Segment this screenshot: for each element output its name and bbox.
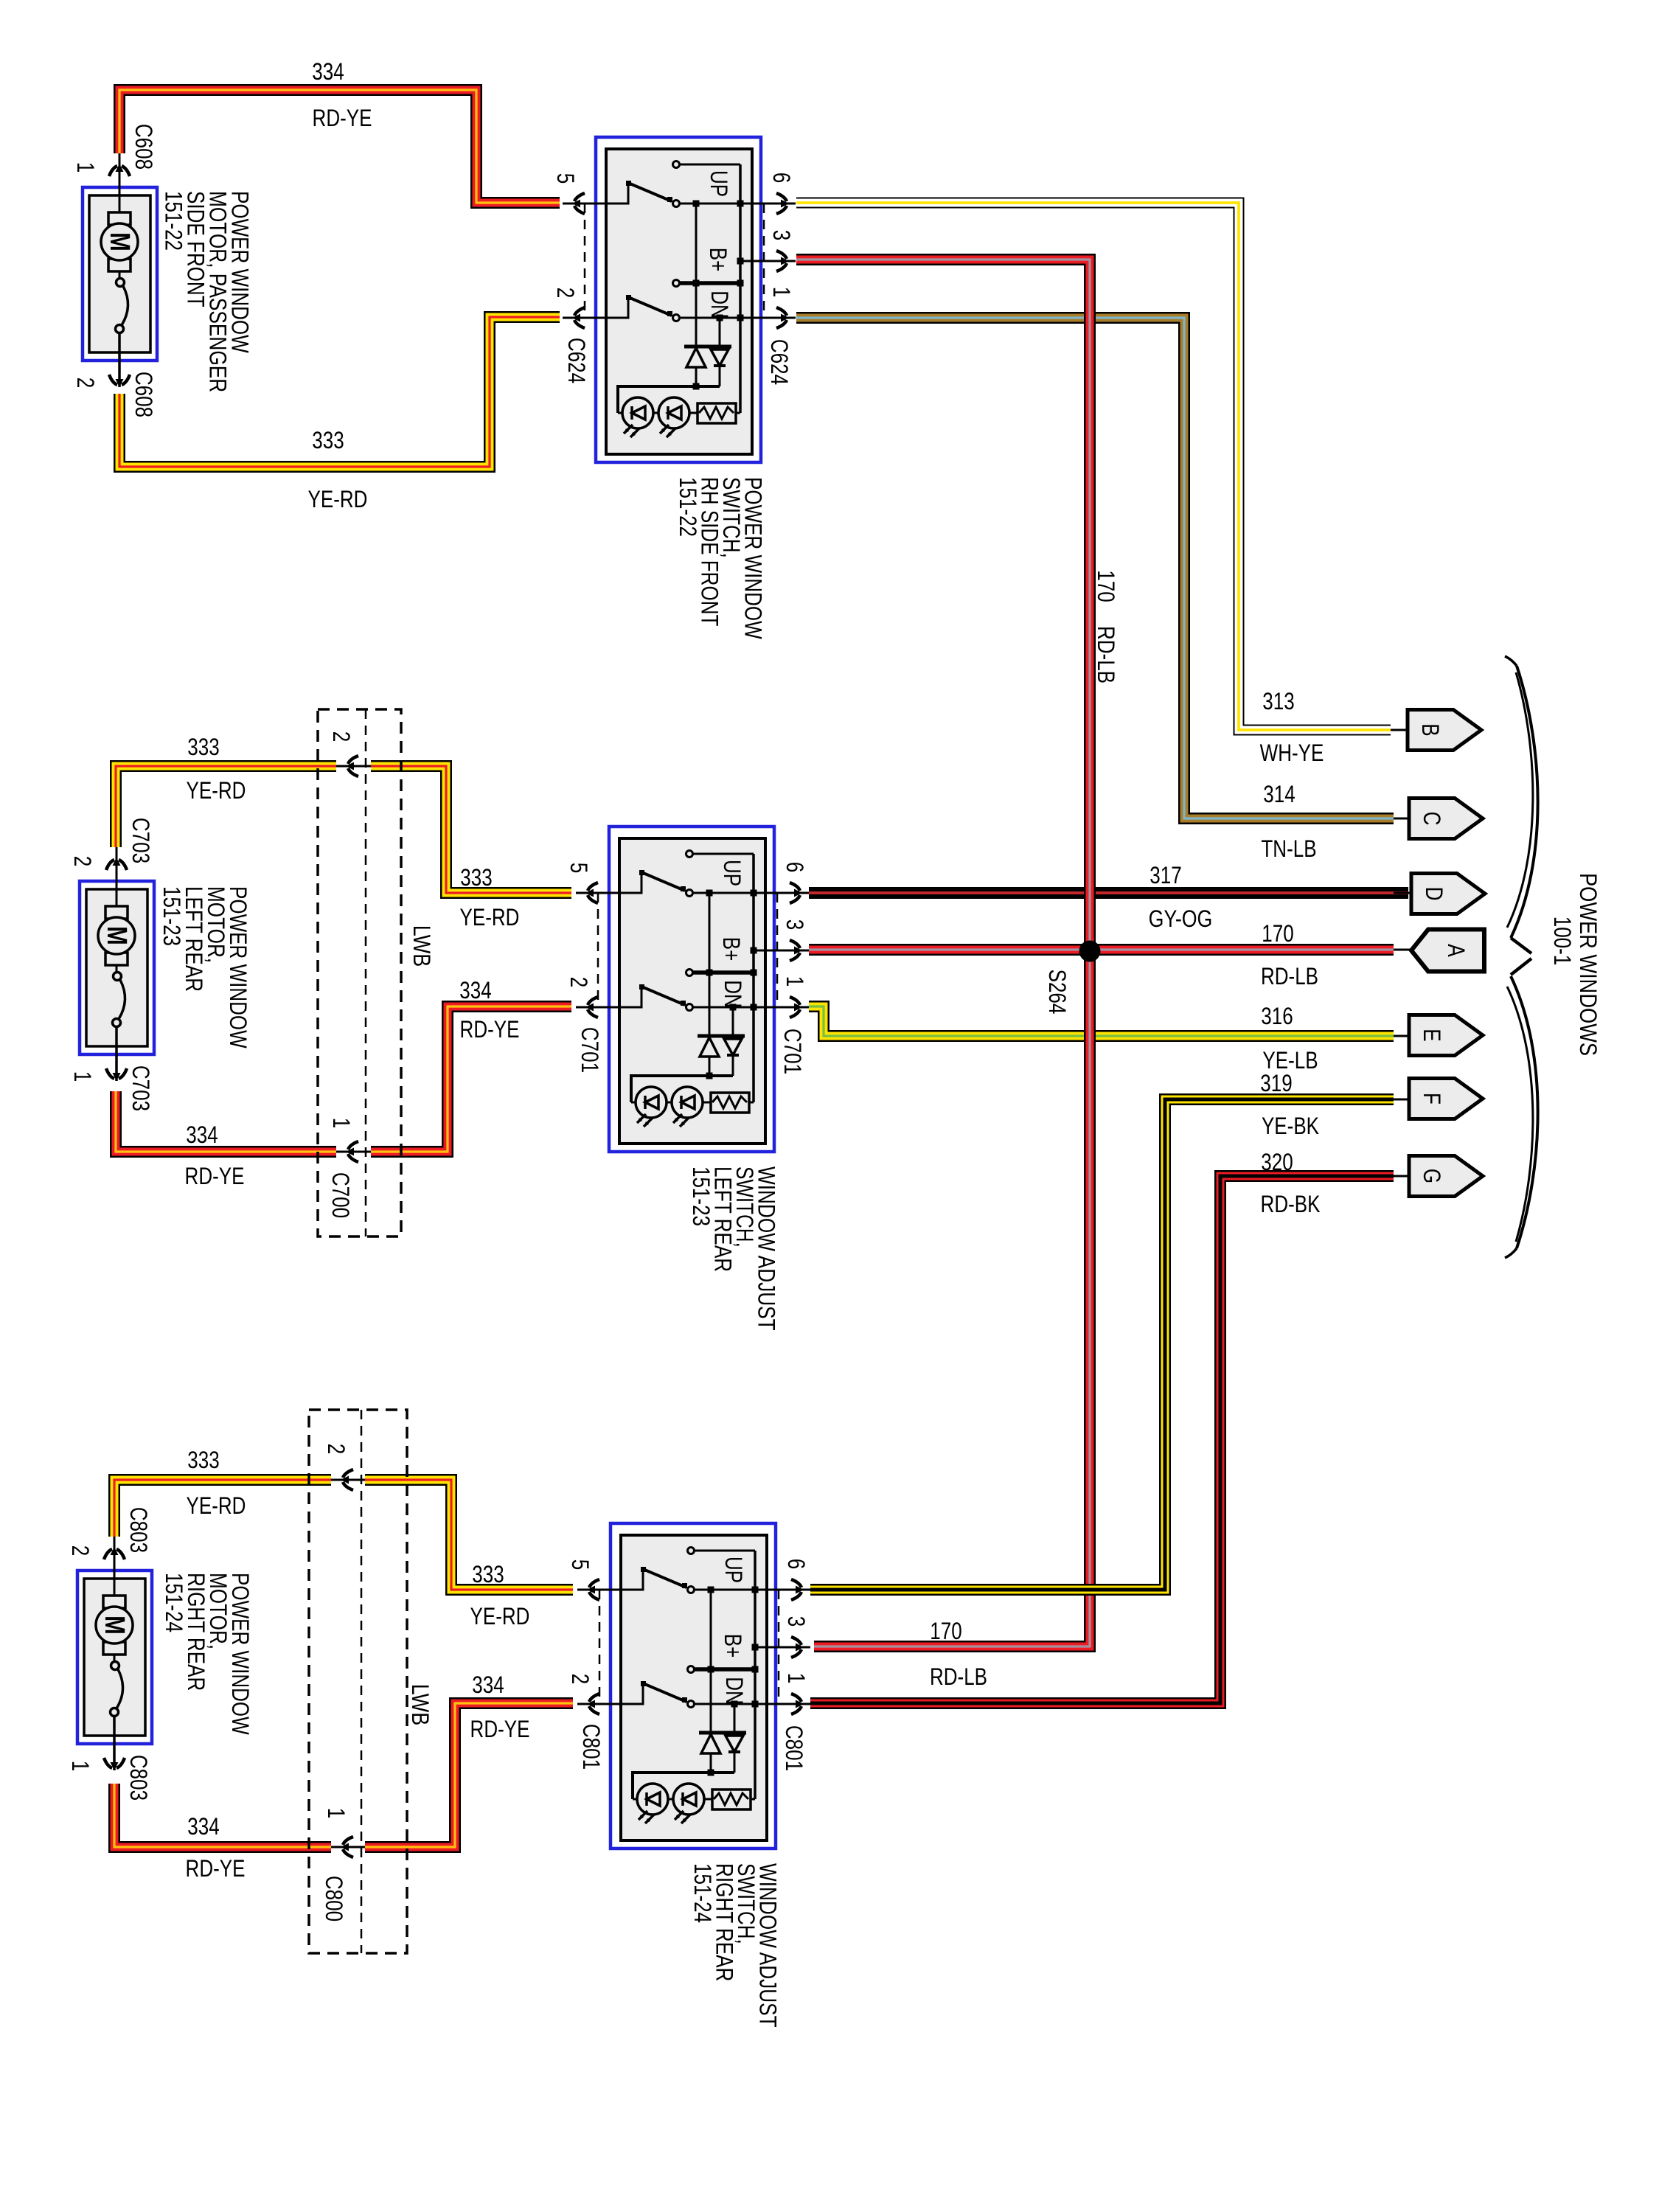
svg-text:317: 317 <box>1150 862 1181 888</box>
svg-text:WH-YE: WH-YE <box>1260 740 1324 766</box>
svg-text:S264: S264 <box>1044 970 1071 1015</box>
pin 3 line <box>740 260 752 262</box>
svg-text:2: 2 <box>328 731 355 742</box>
inline connector C800 dashed box LWB <box>309 1410 407 1953</box>
connector pins and dashed boundary C624 <box>563 203 606 205</box>
svg-text:C801: C801 <box>578 1724 605 1770</box>
wire 334 RD-YE right rear motor side <box>114 1784 331 1847</box>
svg-text:C803: C803 <box>125 1507 152 1553</box>
wire 333 YE-RD front <box>119 317 560 467</box>
svg-text:TN-LB: TN-LB <box>1261 835 1316 862</box>
svg-text:DN: DN <box>706 291 733 319</box>
wire 170 RD-LB vertical <box>796 260 1090 1646</box>
splice S264 <box>1079 941 1101 962</box>
svg-text:M: M <box>99 1615 130 1635</box>
wire 316 YE-LB <box>809 1006 1394 1036</box>
connector D <box>1394 892 1411 894</box>
wire 319 YE-BK <box>810 1099 1394 1590</box>
svg-text:1: 1 <box>768 287 795 298</box>
svg-text:YE-RD: YE-RD <box>308 486 368 512</box>
connector A <box>1394 949 1411 951</box>
svg-text:UP: UP <box>706 170 732 197</box>
svg-text:1: 1 <box>783 1673 810 1684</box>
connector C703 pin bottom arrow <box>106 1068 127 1081</box>
svg-text:M: M <box>104 232 135 251</box>
svg-text:333: 333 <box>312 427 344 453</box>
connector G <box>1394 1175 1409 1178</box>
svg-text:RD-YE: RD-YE <box>185 1163 245 1189</box>
LED lamps <box>618 412 698 414</box>
power window motor left rear <box>80 847 154 1081</box>
svg-text:RD-YE: RD-YE <box>313 105 372 131</box>
svg-text:UP: UP <box>720 1557 747 1583</box>
svg-text:RD-LB: RD-LB <box>1093 626 1119 684</box>
wire 334 RD-YE right rear switch side <box>365 1703 573 1847</box>
resistor <box>711 1093 749 1113</box>
wire 334 RD-YE left rear motor side <box>116 1091 336 1152</box>
svg-text:C: C <box>1419 812 1445 826</box>
svg-text:DN: DN <box>720 980 746 1008</box>
svg-text:RD-BK: RD-BK <box>1261 1191 1321 1217</box>
svg-text:C703: C703 <box>128 1065 154 1111</box>
diode left (up) <box>709 973 711 1036</box>
wire 333 YE-RD right rear switch side <box>365 1480 573 1590</box>
svg-text:151-22: 151-22 <box>675 477 701 537</box>
C800 pin 1 <box>331 1846 365 1848</box>
svg-text:YE-RD: YE-RD <box>187 1492 246 1519</box>
svg-text:5: 5 <box>552 173 579 184</box>
wire 313 WH-YE <box>796 203 1391 730</box>
wire 317 GY-OG <box>809 887 1408 899</box>
diode rail <box>631 1076 733 1102</box>
svg-text:5: 5 <box>566 863 592 874</box>
svg-text:C801: C801 <box>781 1725 807 1771</box>
connector C803 pin top arrow <box>104 1547 125 1559</box>
wire 170 RD-LB crossing at S264 <box>1084 848 1096 1069</box>
svg-text:YE-BK: YE-BK <box>1262 1113 1319 1139</box>
svg-text:334: 334 <box>187 1813 219 1840</box>
svg-text:3: 3 <box>782 919 808 931</box>
svg-text:C700: C700 <box>327 1172 354 1218</box>
svg-text:LWB: LWB <box>407 1684 434 1725</box>
svg-text:C608: C608 <box>131 372 157 417</box>
svg-text:RD-YE: RD-YE <box>186 1855 246 1882</box>
wire 320 RD-BK <box>810 1176 1394 1703</box>
svg-text:B: B <box>1417 723 1444 736</box>
B+ bus <box>710 1590 712 1669</box>
svg-text:333: 333 <box>187 734 219 760</box>
svg-text:M: M <box>101 926 132 945</box>
wire 333 YE-RD right rear motor side <box>114 1480 331 1537</box>
svg-text:334: 334 <box>186 1121 218 1148</box>
svg-text:3: 3 <box>768 230 795 241</box>
C800 pin 2 <box>331 1479 365 1481</box>
DN switch contact <box>621 1683 643 1704</box>
svg-text:6: 6 <box>783 1559 810 1570</box>
connector pins and dashed boundary C701 <box>576 892 619 894</box>
svg-text:151-23: 151-23 <box>159 886 185 946</box>
UP switch contact <box>619 872 641 893</box>
LED lamps <box>633 1798 712 1801</box>
wire 334 RD-YE front <box>119 90 560 203</box>
svg-text:C701: C701 <box>577 1027 603 1073</box>
svg-text:GY-OG: GY-OG <box>1149 905 1213 932</box>
svg-text:6: 6 <box>768 173 795 184</box>
connector C703 pin top arrow <box>106 858 127 870</box>
svg-text:DN: DN <box>721 1677 748 1705</box>
svg-text:313: 313 <box>1262 688 1294 714</box>
diode right (down) <box>719 318 721 345</box>
svg-text:2: 2 <box>566 977 592 988</box>
svg-text:E: E <box>1419 1029 1445 1041</box>
svg-text:333: 333 <box>187 1447 219 1473</box>
svg-text:RD-YE: RD-YE <box>470 1716 530 1742</box>
svg-text:G: G <box>1419 1169 1445 1183</box>
svg-text:RD-LB: RD-LB <box>1261 963 1318 990</box>
svg-text:B+: B+ <box>705 248 731 272</box>
svg-text:333: 333 <box>472 1561 504 1587</box>
svg-text:1: 1 <box>782 976 808 987</box>
svg-text:C624: C624 <box>563 338 590 383</box>
svg-text:C703: C703 <box>128 818 154 863</box>
diode rail <box>618 386 720 413</box>
wire 170 RD-LB crossing at 314 <box>1084 288 1096 347</box>
svg-text:2: 2 <box>69 856 96 867</box>
connector E <box>1394 1035 1409 1037</box>
svg-text:314: 314 <box>1263 781 1295 807</box>
svg-text:1: 1 <box>323 1808 349 1819</box>
inline connector C700 dashed box LWB <box>318 709 401 1237</box>
diode right (down) <box>732 1007 734 1034</box>
resistor <box>712 1790 751 1809</box>
svg-text:2: 2 <box>323 1444 349 1455</box>
svg-text:170: 170 <box>1262 920 1293 947</box>
svg-text:RD-LB: RD-LB <box>930 1663 987 1690</box>
svg-text:1: 1 <box>67 1761 94 1772</box>
svg-text:YE-RD: YE-RD <box>187 777 246 804</box>
svg-text:320: 320 <box>1261 1149 1293 1175</box>
window switch right rear <box>611 1523 776 1848</box>
diode left (up) <box>695 283 698 347</box>
svg-text:2: 2 <box>67 1545 94 1557</box>
resistor <box>698 403 736 423</box>
B+ bus <box>695 204 698 283</box>
svg-text:YE-RD: YE-RD <box>470 1603 530 1630</box>
pin 3 line <box>755 1646 767 1649</box>
connector B <box>1391 729 1408 731</box>
wire 314 TN-LB <box>796 318 1394 818</box>
svg-text:C803: C803 <box>125 1755 152 1801</box>
svg-text:334: 334 <box>312 58 344 85</box>
svg-text:C624: C624 <box>766 339 793 385</box>
svg-text:1: 1 <box>72 162 99 173</box>
DN switch contact <box>606 297 628 318</box>
diode rail <box>633 1773 734 1799</box>
C700 pin 2 <box>336 765 371 768</box>
connector C <box>1394 818 1409 820</box>
svg-text:2: 2 <box>552 288 579 299</box>
brace POWER WINDOWS 100-1 <box>1511 666 1538 938</box>
power window motor passenger front <box>83 153 157 387</box>
svg-text:333: 333 <box>460 864 492 891</box>
connector C803 pin bottom arrow <box>104 1758 125 1770</box>
svg-text:B+: B+ <box>720 1634 746 1658</box>
svg-text:POWER WINDOWS: POWER WINDOWS <box>1575 873 1601 1056</box>
svg-text:316: 316 <box>1261 1003 1293 1029</box>
window switch RH side front <box>596 137 761 462</box>
svg-text:2: 2 <box>567 1674 594 1685</box>
svg-text:1: 1 <box>69 1071 96 1082</box>
svg-text:334: 334 <box>472 1672 504 1698</box>
svg-text:100-1: 100-1 <box>1549 917 1576 966</box>
UP switch contact <box>621 1569 643 1590</box>
svg-text:D: D <box>1421 887 1447 901</box>
connector pins and dashed boundary C801 <box>577 1589 621 1591</box>
UP switch contact <box>606 183 628 204</box>
connector C608 pin top arrow <box>109 164 130 176</box>
wire 333 YE-RD left rear motor side <box>116 766 336 847</box>
svg-text:A: A <box>1443 944 1470 957</box>
diode left (up) <box>710 1669 712 1733</box>
svg-text:F: F <box>1419 1093 1445 1105</box>
svg-text:RD-YE: RD-YE <box>460 1016 520 1043</box>
connector C608 pin bottom arrow <box>109 375 130 387</box>
pin 3 line <box>754 950 765 952</box>
svg-text:B+: B+ <box>718 937 745 961</box>
svg-text:3: 3 <box>783 1616 810 1627</box>
svg-text:5: 5 <box>567 1559 594 1571</box>
svg-text:170: 170 <box>930 1618 961 1644</box>
C700 pin 1 <box>336 1151 371 1153</box>
DN switch contact <box>619 987 641 1007</box>
svg-text:C701: C701 <box>779 1029 806 1074</box>
svg-text:UP: UP <box>719 860 745 886</box>
svg-text:334: 334 <box>459 977 491 1004</box>
svg-text:LWB: LWB <box>408 925 435 967</box>
svg-text:2: 2 <box>72 378 99 389</box>
wire 334 RD-YE left rear switch side <box>371 1006 571 1152</box>
svg-text:151-24: 151-24 <box>161 1573 187 1632</box>
svg-text:1: 1 <box>328 1118 355 1129</box>
LED lamps <box>631 1102 711 1104</box>
svg-text:151-22: 151-22 <box>161 191 187 251</box>
B+ bus <box>709 893 711 973</box>
diode right (down) <box>734 1704 736 1731</box>
svg-text:C608: C608 <box>131 124 157 170</box>
wire 170 RD-LB to A <box>809 944 1394 956</box>
power window motor right rear <box>77 1537 152 1770</box>
window switch left rear <box>609 827 774 1152</box>
svg-text:C800: C800 <box>321 1876 347 1921</box>
svg-text:319: 319 <box>1260 1070 1292 1096</box>
svg-text:6: 6 <box>782 862 808 873</box>
svg-text:151-23: 151-23 <box>688 1166 714 1226</box>
wire 333 YE-RD left rear switch side <box>371 766 571 893</box>
svg-text:170: 170 <box>1093 570 1119 602</box>
svg-text:YE-RD: YE-RD <box>460 904 520 931</box>
svg-text:151-24: 151-24 <box>689 1863 716 1923</box>
connector F <box>1394 1099 1409 1101</box>
